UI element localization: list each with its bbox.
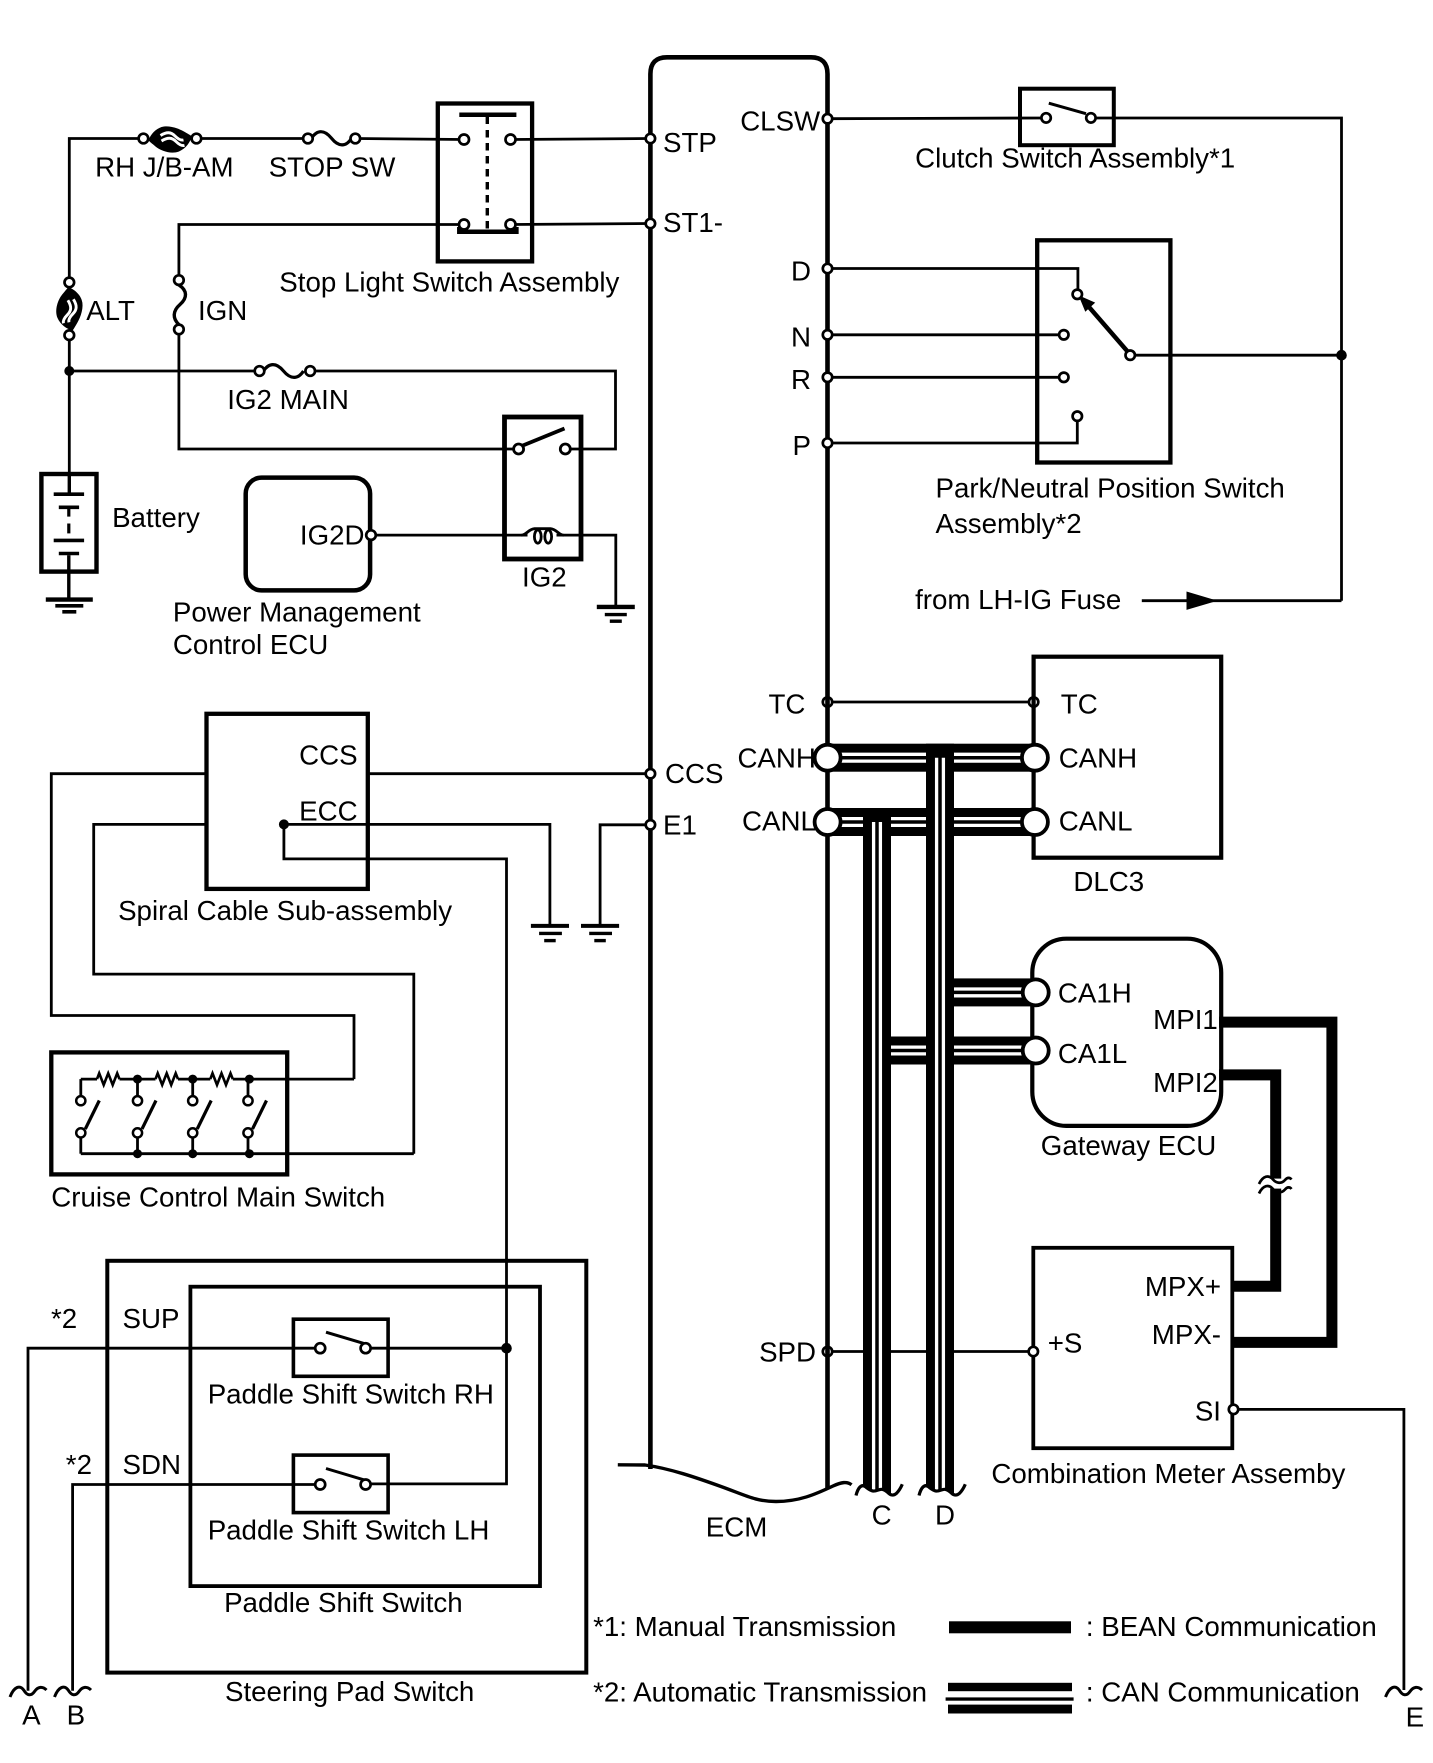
BEAN wire break: [1259, 1176, 1292, 1193]
pin SPD circles: [823, 1347, 832, 1356]
svg-text:N: N: [791, 322, 811, 353]
wire SUP: [28, 1348, 315, 1691]
arrow from LH-IG fuse: [1187, 592, 1218, 610]
wire SDN: [73, 1485, 315, 1691]
svg-text:Gateway ECU: Gateway ECU: [1041, 1130, 1216, 1161]
svg-text:CA1L: CA1L: [1058, 1038, 1127, 1069]
CAN band stripes horizontal: [828, 754, 1035, 1054]
svg-text:STOP SW: STOP SW: [269, 152, 397, 183]
stop light switch assembly: [438, 104, 532, 262]
terminal CANL ECM: [815, 809, 841, 835]
svg-text:P: P: [793, 430, 811, 461]
svg-text:D: D: [791, 256, 811, 287]
wire cruise switch bus: [81, 1152, 414, 1155]
svg-text:Paddle Shift Switch LH: Paddle Shift Switch LH: [208, 1514, 490, 1545]
svg-text:Battery: Battery: [112, 502, 200, 533]
svg-text:ST1-: ST1-: [663, 207, 723, 238]
CAN band CA1L: [877, 1037, 1036, 1065]
pin P: [823, 438, 832, 447]
svg-text:ALT: ALT: [86, 295, 135, 326]
resistor R1: [97, 1073, 120, 1085]
svg-text:Stop Light Switch Assembly: Stop Light Switch Assembly: [279, 266, 619, 297]
steering pad switch box: [107, 1261, 586, 1673]
wire PN common output: [1135, 354, 1342, 357]
paddle shift switch RH: [293, 1319, 388, 1376]
wire TC: [828, 701, 1034, 704]
wire cruise switch stubs: [79, 1079, 82, 1096]
svg-text:IGN: IGN: [198, 295, 247, 326]
svg-text:Spiral Cable Sub-assembly: Spiral Cable Sub-assembly: [118, 895, 452, 926]
svg-text:*1: Manual Transmission: *1: Manual Transmission: [593, 1611, 896, 1642]
node battery junction: [64, 366, 74, 376]
wire CLSW: [828, 117, 1042, 120]
svg-text:DLC3: DLC3: [1073, 866, 1144, 897]
wire IG2 MAIN row: [69, 370, 259, 373]
wire IG2D to relay coil: [376, 534, 528, 537]
terminal CA1L: [1023, 1038, 1049, 1064]
wire ECC to cruise switch bus: [94, 824, 414, 1153]
fusible link RH J/B-AM: [139, 126, 202, 152]
pin R: [823, 373, 832, 382]
svg-text:Control ECU: Control ECU: [173, 629, 328, 660]
svg-text:MPX+: MPX+: [1145, 1271, 1221, 1302]
svg-text:*2: Automatic Transmission: *2: Automatic Transmission: [593, 1677, 927, 1708]
wire from LH-IG fuse arrow line: [1142, 599, 1342, 602]
svg-text:*2: *2: [66, 1449, 92, 1480]
svg-text:Combination Meter Assemby: Combination Meter Assemby: [991, 1458, 1345, 1489]
pin ST1-: [646, 219, 655, 228]
terminal CA1H: [1023, 979, 1049, 1005]
battery: [41, 474, 96, 598]
svg-text:D: D: [935, 1500, 955, 1531]
pin CCS: [646, 769, 655, 778]
cruise switch 3: [188, 1096, 211, 1137]
svg-text:CANL: CANL: [742, 806, 816, 837]
svg-text:B: B: [67, 1699, 85, 1730]
spiral cable sub-assembly: [207, 714, 368, 889]
svg-text:MPX-: MPX-: [1152, 1319, 1221, 1350]
connector C break: [856, 1484, 902, 1508]
svg-text:: CAN Communication: : CAN Communication: [1086, 1677, 1360, 1708]
svg-text:A: A: [22, 1699, 41, 1730]
cruise switch 1: [76, 1096, 99, 1137]
gateway ECU box: [1032, 939, 1221, 1126]
svg-text:from LH-IG Fuse: from LH-IG Fuse: [915, 584, 1121, 615]
wire D: [828, 269, 1078, 290]
pin SI: [1229, 1405, 1238, 1414]
pin STP: [646, 134, 655, 143]
CAN band CANH: [828, 744, 1035, 772]
wire cruise resistor row: [81, 1078, 97, 1081]
svg-text:*2: *2: [51, 1303, 77, 1334]
cruise switch 2: [133, 1096, 156, 1137]
resistor R2: [156, 1073, 179, 1085]
svg-text:SPD: SPD: [759, 1337, 816, 1368]
CAN band CANL: [828, 808, 1035, 836]
legend BEAN bar: [949, 1621, 1071, 1633]
power management control ECU: [246, 478, 370, 591]
svg-text:RH J/B-AM: RH J/B-AM: [95, 152, 233, 183]
svg-text:SUP: SUP: [123, 1303, 180, 1334]
svg-text:CANL: CANL: [1059, 806, 1133, 837]
wire ECC to ground: [284, 824, 550, 924]
pin E1: [646, 820, 655, 829]
combination meter assembly box: [1033, 1248, 1232, 1448]
svg-text:: BEAN Communication: : BEAN Communication: [1086, 1611, 1377, 1642]
ground battery: [46, 600, 93, 612]
wire fusible link to stop fuse: [196, 137, 308, 140]
svg-text:IG2 MAIN: IG2 MAIN: [227, 384, 349, 415]
node ECC: [279, 819, 289, 829]
ECM bottom wave: [618, 1465, 852, 1502]
CAN bus stripes vertical: [874, 758, 944, 1491]
wire relay coil to ground: [557, 535, 616, 605]
cruise control main switch: [51, 1052, 287, 1174]
pin +S: [1029, 1347, 1038, 1356]
svg-text:R: R: [791, 364, 811, 395]
svg-text:MPI2: MPI2: [1153, 1067, 1218, 1098]
connector A squiggle: [10, 1687, 47, 1697]
resistor R3: [210, 1073, 233, 1085]
svg-text:MPI1: MPI1: [1153, 1004, 1218, 1035]
pin IG2D: [366, 530, 376, 540]
paddle shift switch box: [190, 1287, 540, 1586]
connector B squiggle: [55, 1687, 92, 1697]
terminal CANL DLC3: [1022, 809, 1048, 835]
node resistor junctions: [133, 1075, 142, 1084]
wire P: [828, 421, 1078, 443]
svg-text:CLSW: CLSW: [740, 106, 821, 137]
ground E1: [581, 926, 619, 941]
wire ECC to paddle common: [284, 824, 507, 1484]
svg-text:ECC: ECC: [299, 796, 357, 827]
ground relay: [597, 607, 635, 621]
wire STP: [511, 139, 651, 140]
pin CLSW: [823, 114, 832, 123]
svg-text:Paddle Shift Switch RH: Paddle Shift Switch RH: [208, 1379, 494, 1410]
svg-text:CANH: CANH: [1059, 743, 1137, 774]
park neutral position switch assembly: [1037, 240, 1170, 462]
terminal CANH DLC3: [1022, 745, 1048, 771]
svg-text:TC: TC: [768, 688, 805, 719]
pin N: [823, 330, 832, 339]
svg-text:SDN: SDN: [123, 1449, 181, 1480]
fusible link ALT: [56, 278, 82, 340]
BEAN wire MPI2 to MPX+: [1219, 1075, 1276, 1286]
svg-text:Clutch Switch Assembly*1: Clutch Switch Assembly*1: [915, 142, 1235, 173]
ground ECC: [531, 926, 569, 941]
clutch switch assembly: [1020, 89, 1114, 146]
ECM outline: [650, 57, 827, 1488]
wire ALT to junction and battery: [68, 335, 71, 474]
node SUP junction: [501, 1343, 512, 1354]
terminal CANH ECM: [815, 745, 841, 771]
svg-text:C: C: [872, 1500, 892, 1531]
svg-text:CA1H: CA1H: [1058, 978, 1132, 1009]
svg-text:+S: +S: [1048, 1327, 1083, 1358]
svg-text:Steering Pad Switch: Steering Pad Switch: [225, 1676, 474, 1707]
fuse IG2 MAIN: [255, 365, 315, 378]
relay IG2: [505, 417, 582, 559]
BEAN wire MPI1 to MPX-: [1219, 1022, 1332, 1342]
svg-text:Power Management: Power Management: [173, 597, 421, 628]
wire IGN to relay: [179, 329, 514, 449]
DLC3 box: [1034, 657, 1222, 858]
svg-text:E1: E1: [663, 810, 697, 841]
svg-text:CANH: CANH: [737, 743, 815, 774]
wire N: [828, 333, 1060, 336]
svg-text:SI: SI: [1195, 1395, 1221, 1426]
CAN bus C vertical: [863, 810, 891, 1494]
wire SI to connector E: [1234, 1409, 1404, 1690]
svg-text:STP: STP: [663, 127, 717, 158]
fuse STOP SW: [303, 132, 360, 145]
CAN bus D vertical: [926, 744, 954, 1494]
svg-text:Paddle Shift Switch: Paddle Shift Switch: [224, 1587, 463, 1618]
pin D: [823, 264, 832, 273]
wire E1 to ground: [600, 825, 650, 924]
svg-text:E: E: [1406, 1702, 1424, 1733]
cruise switch 4: [243, 1096, 266, 1137]
connector E squiggle: [1386, 1687, 1423, 1697]
svg-text:IG2D: IG2D: [300, 519, 365, 550]
wire CCS spiral to ECM: [368, 772, 651, 775]
svg-text:ECM: ECM: [706, 1511, 768, 1542]
fuse IGN: [174, 275, 185, 334]
legend CAN bar: [946, 1683, 1074, 1714]
svg-text:Assembly*2: Assembly*2: [936, 508, 1082, 539]
svg-text:CCS: CCS: [299, 740, 357, 771]
wire CCS spiral to cruise resistors: [51, 774, 354, 1079]
svg-text:Cruise Control Main Switch: Cruise Control Main Switch: [51, 1182, 385, 1213]
pin TC circles: [823, 697, 832, 706]
node bus junctions: [133, 1149, 142, 1158]
wire SPD: [828, 1350, 1034, 1353]
paddle shift switch LH: [293, 1455, 388, 1513]
wire stop fuse to stop light switch: [355, 139, 464, 140]
wire battery feed top row: [69, 139, 143, 283]
svg-text:TC: TC: [1061, 688, 1098, 719]
wire ST1-: [179, 225, 464, 281]
node clutch PN junction: [1336, 350, 1347, 361]
CAN band CA1H: [940, 978, 1036, 1006]
svg-text:Park/Neutral Position Switch: Park/Neutral Position Switch: [936, 473, 1285, 504]
svg-text:IG2: IG2: [522, 562, 567, 593]
connector D break: [919, 1484, 965, 1508]
svg-text:CCS: CCS: [665, 758, 723, 789]
wire R: [828, 376, 1060, 379]
